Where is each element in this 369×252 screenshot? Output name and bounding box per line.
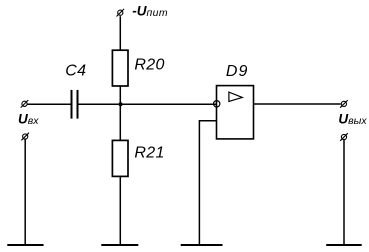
wire R21 to ground bbox=[119, 177, 121, 246]
resistor R20 bbox=[112, 50, 128, 86]
node junction dot bbox=[119, 102, 123, 106]
svg-text:C4: C4 bbox=[65, 63, 86, 80]
svg-text:D9: D9 bbox=[226, 63, 248, 80]
svg-text:R20: R20 bbox=[134, 56, 164, 73]
terminal input ground side bbox=[21, 133, 29, 141]
op-amp amplification triangle bbox=[229, 92, 242, 101]
op-amp U1 box (D9) bbox=[217, 86, 254, 139]
terminal output (Uвых) bbox=[340, 100, 348, 108]
terminal output ground side bbox=[340, 133, 348, 141]
wire output ground terminal down bbox=[343, 140, 345, 245]
wire C4 to op-amp input bbox=[79, 103, 217, 105]
wire R20 to node to R21 bbox=[119, 86, 121, 141]
capacitor C4 bbox=[72, 90, 78, 119]
wire top terminal to R20 bbox=[119, 16, 121, 50]
ground bar 4 bbox=[326, 244, 362, 246]
ground bar 1 bbox=[7, 244, 43, 246]
terminal top (-Uпит) bbox=[117, 9, 125, 17]
wire input ground terminal down bbox=[24, 139, 26, 245]
ground bar 2 bbox=[101, 244, 138, 246]
wire op-amp noninverting input bbox=[199, 121, 216, 245]
op-amp inverting input circle bbox=[214, 101, 220, 107]
wire op-amp output to terminal bbox=[254, 103, 341, 105]
ground bar 3 bbox=[181, 244, 223, 246]
svg-text:R21: R21 bbox=[134, 145, 164, 162]
resistor R21 bbox=[112, 140, 128, 176]
wire input terminal to C4 bbox=[27, 103, 70, 105]
terminal input (Uвх) bbox=[21, 100, 29, 108]
